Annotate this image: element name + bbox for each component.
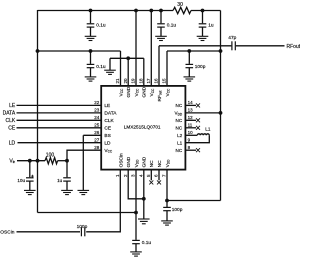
- svg-text:4: 4: [139, 174, 144, 177]
- svg-text:L1: L1: [205, 126, 211, 131]
- capacitor C8 lower lead: [66, 181, 68, 190]
- wire pin 4 ground drop: [143, 170, 145, 219]
- wire CE signal: [17, 127, 102, 129]
- svg-text:12: 12: [188, 115, 194, 120]
- svg-text:2: 2: [123, 174, 128, 177]
- svg-text:GND: GND: [142, 86, 148, 97]
- capacitor C4 0.1u lead: [90, 51, 92, 64]
- svg-text:19: 19: [131, 78, 136, 84]
- svg-text:VCC: VCC: [134, 88, 140, 97]
- ground stem on GND bus: [109, 58, 111, 70]
- wire pin 13 Vcc: [185, 112, 220, 114]
- svg-text:100p: 100p: [77, 224, 88, 230]
- svg-text:47p: 47p: [228, 35, 236, 41]
- capacitor C4 plates: [87, 64, 95, 67]
- wire Vcc top rail left of R1: [38, 10, 174, 12]
- svg-text:BS: BS: [104, 133, 110, 139]
- no-connect X pin 12: [196, 118, 200, 122]
- wire RFout line right: [236, 45, 285, 47]
- svg-text:DATA: DATA: [104, 111, 117, 117]
- wire pin 21 riser: [120, 51, 122, 87]
- svg-text:L2: L2: [177, 133, 183, 138]
- no-connect X pin 5: [149, 180, 153, 184]
- svg-text:NC: NC: [176, 103, 183, 108]
- svg-text:30: 30: [177, 2, 183, 8]
- svg-text:1u: 1u: [57, 178, 63, 183]
- svg-text:Vin: Vin: [9, 158, 15, 164]
- node y51 at C4: [89, 49, 93, 53]
- no-connect X pin 11: [196, 126, 200, 130]
- capacitor C2 lower lead: [160, 27, 162, 36]
- inductor L1: [197, 134, 209, 136]
- svg-text:NC: NC: [176, 118, 183, 123]
- wire pin 16 RFout riser: [158, 46, 160, 87]
- svg-text:21: 21: [115, 78, 120, 84]
- svg-text:14: 14: [188, 100, 194, 105]
- svg-text:100p: 100p: [195, 64, 206, 70]
- svg-text:CE: CE: [104, 126, 111, 132]
- svg-text:DATA: DATA: [3, 111, 16, 117]
- svg-text:16: 16: [154, 78, 159, 84]
- svg-text:23: 23: [94, 108, 100, 113]
- svg-text:8: 8: [188, 145, 191, 150]
- svg-text:1u: 1u: [208, 23, 214, 29]
- wire pin 10 to L1: [185, 134, 197, 136]
- wire pin 2 to ground bus: [128, 170, 144, 199]
- node top wire at C2: [159, 9, 163, 13]
- svg-text:LE: LE: [104, 103, 110, 109]
- svg-text:VDD: VDD: [165, 159, 171, 168]
- capacitor C9 100p plates: [81, 227, 84, 236]
- svg-text:CLK: CLK: [104, 118, 114, 124]
- svg-text:LE: LE: [9, 103, 16, 109]
- wire Vdd feed to pin 3: [38, 212, 137, 214]
- capacitor C4 lower lead: [90, 68, 92, 77]
- wire Vcc distribution y51 left segment: [38, 50, 121, 52]
- svg-text:0.1u: 0.1u: [96, 23, 106, 29]
- ground under C8: [61, 190, 73, 194]
- node pin2 pin4 ground join: [142, 197, 146, 201]
- svg-text:0.1u: 0.1u: [142, 240, 152, 246]
- svg-text:100p: 100p: [172, 207, 183, 213]
- svg-text:VDD: VDD: [175, 111, 183, 117]
- wire GND bus y58: [110, 57, 144, 59]
- svg-text:15: 15: [162, 78, 167, 84]
- svg-text:NC: NC: [149, 160, 155, 167]
- svg-text:NC: NC: [157, 160, 163, 167]
- ground under C6: [184, 77, 196, 81]
- capacitor C2 0.1u lead: [160, 11, 162, 24]
- wire pin 12 stub NC: [185, 119, 196, 121]
- node top wire at pin19 riser: [134, 9, 138, 13]
- node Vin at rail: [36, 159, 40, 163]
- ground under C10: [130, 252, 142, 256]
- svg-text:13: 13: [188, 108, 194, 113]
- node Vdd wire at pin3: [134, 211, 138, 215]
- svg-text:25: 25: [94, 123, 100, 128]
- node y51 right at C6: [187, 49, 191, 53]
- capacitor C7 lower lead: [29, 181, 31, 190]
- capacitor C6 lower lead: [188, 68, 190, 77]
- capacitor C5 47p plates: [232, 41, 235, 50]
- svg-text:1: 1: [115, 174, 120, 177]
- svg-text:CE: CE: [8, 126, 16, 132]
- capacitor C6 100p lead: [188, 51, 190, 64]
- wire BS ground drop: [82, 135, 84, 190]
- svg-text:26: 26: [94, 130, 100, 135]
- wire BS stub: [83, 134, 101, 136]
- node GND bus at pin20: [126, 56, 130, 60]
- wire Vin: [17, 160, 45, 162]
- svg-text:VCC: VCC: [104, 148, 113, 154]
- svg-text:VCC: VCC: [118, 88, 124, 97]
- ground under C7: [24, 190, 36, 194]
- no-connect X pin 14: [196, 103, 200, 107]
- svg-text:LMX2515LQ0701: LMX2515LQ0701: [124, 125, 161, 130]
- svg-text:L1: L1: [177, 140, 183, 145]
- wire CLK signal: [17, 119, 102, 121]
- svg-text:20: 20: [123, 78, 128, 84]
- wire left Vcc rail vertical: [37, 10, 39, 213]
- wire pin 20 riser: [127, 58, 129, 86]
- capacitor C7 plates: [26, 178, 34, 181]
- svg-text:17: 17: [146, 78, 151, 84]
- capacitor C8 plates: [63, 178, 71, 181]
- wire OSCin left: [17, 231, 81, 233]
- capacitor C11 100p plates: [163, 207, 171, 210]
- op-amp U1 IC body LMX2515LQ0701: [101, 86, 185, 170]
- wire pin 15 riser: [166, 51, 168, 87]
- wire LD signal: [18, 142, 102, 144]
- svg-text:22: 22: [94, 100, 100, 105]
- capacitor C7 10u lead: [29, 161, 31, 178]
- svg-text:VCC: VCC: [149, 88, 155, 97]
- svg-text:9: 9: [188, 137, 191, 142]
- svg-text:10u: 10u: [17, 178, 25, 183]
- svg-text:GND: GND: [142, 156, 148, 167]
- wire filtered Vcc to pin 7: [167, 200, 221, 202]
- wire RF bias node right of R1: [191, 10, 221, 12]
- wire pin 17 riser to Vcc top: [150, 11, 152, 87]
- svg-text:GND: GND: [126, 156, 132, 167]
- node top wire at C1: [89, 9, 93, 13]
- capacitor C8 1u lead: [66, 161, 68, 178]
- wire pin 11 stub NC: [185, 127, 196, 129]
- svg-text:GND: GND: [126, 86, 132, 97]
- wire pin 18 riser: [143, 58, 145, 86]
- ground under BS: [78, 190, 90, 194]
- node top wire at pin17 riser: [149, 9, 153, 13]
- ground under C2: [155, 36, 167, 40]
- svg-text:RFout: RFout: [157, 91, 163, 102]
- svg-text:27: 27: [94, 137, 100, 142]
- capacitor C3 1u lead: [202, 11, 204, 24]
- wire pin 8 stub NC: [185, 149, 196, 151]
- svg-text:18: 18: [139, 78, 144, 84]
- svg-text:OSCin: OSCin: [0, 230, 14, 236]
- ground under C3: [197, 36, 209, 40]
- wire pin 19 riser to Vcc top: [135, 11, 137, 87]
- svg-text:OSCin: OSCin: [118, 153, 124, 167]
- node pin7 at C11: [165, 199, 169, 203]
- svg-text:5: 5: [146, 174, 151, 177]
- capacitor C6 plates: [186, 64, 194, 67]
- capacitor C1 0.1u lead: [90, 11, 92, 24]
- svg-text:0.1u: 0.1u: [96, 64, 106, 70]
- ground under C1: [85, 36, 97, 40]
- wire pin 28 Vcc: [67, 150, 101, 161]
- wire OSCin right to pin 1: [86, 170, 120, 232]
- wire right filtered-Vcc rail vertical: [220, 11, 222, 201]
- svg-text:LD: LD: [9, 140, 16, 146]
- svg-text:NC: NC: [176, 148, 183, 153]
- capacitor C7 polarity plus: [31, 175, 34, 178]
- capacitor C1 plates: [87, 24, 95, 27]
- svg-text:10: 10: [188, 130, 194, 135]
- svg-text:NC: NC: [176, 126, 183, 131]
- wire pin 7 drop: [166, 170, 168, 207]
- capacitor C11 lower lead: [166, 211, 168, 221]
- ground under pin 4: [138, 219, 150, 224]
- svg-text:11: 11: [188, 123, 193, 128]
- ground under C4: [85, 77, 97, 81]
- wire LE signal: [17, 104, 102, 106]
- svg-text:VDD: VDD: [134, 159, 140, 168]
- ground under C11: [161, 221, 173, 225]
- svg-text:24: 24: [94, 115, 100, 120]
- svg-text:RFout: RFout: [287, 44, 301, 50]
- capacitor C10 lower lead: [135, 244, 137, 252]
- node pin13 at rail: [219, 111, 223, 115]
- wire R2 to node: [58, 160, 67, 162]
- wire pin 3 Vdd drop: [135, 170, 137, 240]
- svg-text:LD: LD: [104, 140, 111, 146]
- node Vin at C8: [65, 159, 69, 163]
- capacitor C1 lower lead: [90, 27, 92, 36]
- wire RFout line: [159, 45, 231, 47]
- wire pin 6 stub NC: [158, 170, 160, 181]
- node y51 right at rail: [219, 49, 223, 53]
- capacitor C3 lower lead: [202, 27, 204, 36]
- wire L1 return to pin 9: [185, 135, 209, 142]
- svg-text:6: 6: [154, 174, 159, 177]
- node top wire at C3: [201, 9, 205, 13]
- svg-text:100: 100: [46, 152, 55, 158]
- capacitor C2 plates: [157, 24, 165, 27]
- capacitor C3 plates: [199, 24, 207, 27]
- svg-text:3: 3: [131, 174, 136, 177]
- wire DATA signal: [17, 112, 102, 114]
- node left rail at y51: [36, 49, 40, 53]
- no-connect X pin 8: [196, 148, 200, 152]
- svg-text:7: 7: [162, 174, 167, 177]
- svg-text:0.1u: 0.1u: [167, 23, 177, 29]
- no-connect X pin 6: [157, 180, 161, 184]
- svg-text:28: 28: [94, 145, 100, 150]
- wire pin 5 stub NC: [150, 170, 152, 181]
- resistor R1 30: [173, 7, 191, 13]
- resistor R2 100: [45, 158, 58, 164]
- svg-text:CLK: CLK: [5, 118, 15, 124]
- svg-text:VCC: VCC: [165, 88, 171, 97]
- capacitor C10 plates: [132, 240, 140, 243]
- ground symbol on GND bus: [104, 70, 116, 74]
- wire Vcc y51 right segment: [167, 50, 221, 52]
- node Vin at C7: [28, 159, 32, 163]
- wire pin 14 stub NC: [185, 104, 196, 106]
